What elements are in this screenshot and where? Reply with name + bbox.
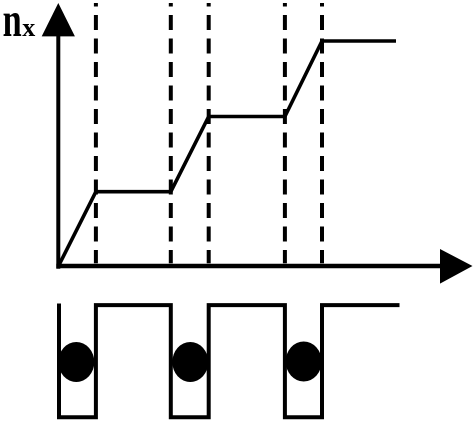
svg-text:x: x bbox=[22, 13, 35, 42]
dashed line d5 bbox=[320, 3, 324, 263]
atom 2 bbox=[172, 342, 208, 382]
dashed line d2 bbox=[169, 3, 173, 263]
atom 1 bbox=[58, 342, 94, 382]
y axis bbox=[42, 3, 75, 269]
dashed line d1 bbox=[94, 3, 98, 263]
dashed line d4 bbox=[283, 3, 287, 263]
lattice potential bbox=[59, 304, 400, 418]
staircase curve bbox=[59, 41, 397, 266]
axis label n_x bbox=[3, 0, 36, 47]
atom 3 bbox=[286, 342, 322, 382]
dashed line d3 bbox=[207, 3, 211, 263]
x axis bbox=[56, 249, 472, 284]
svg-text:n: n bbox=[3, 0, 22, 47]
